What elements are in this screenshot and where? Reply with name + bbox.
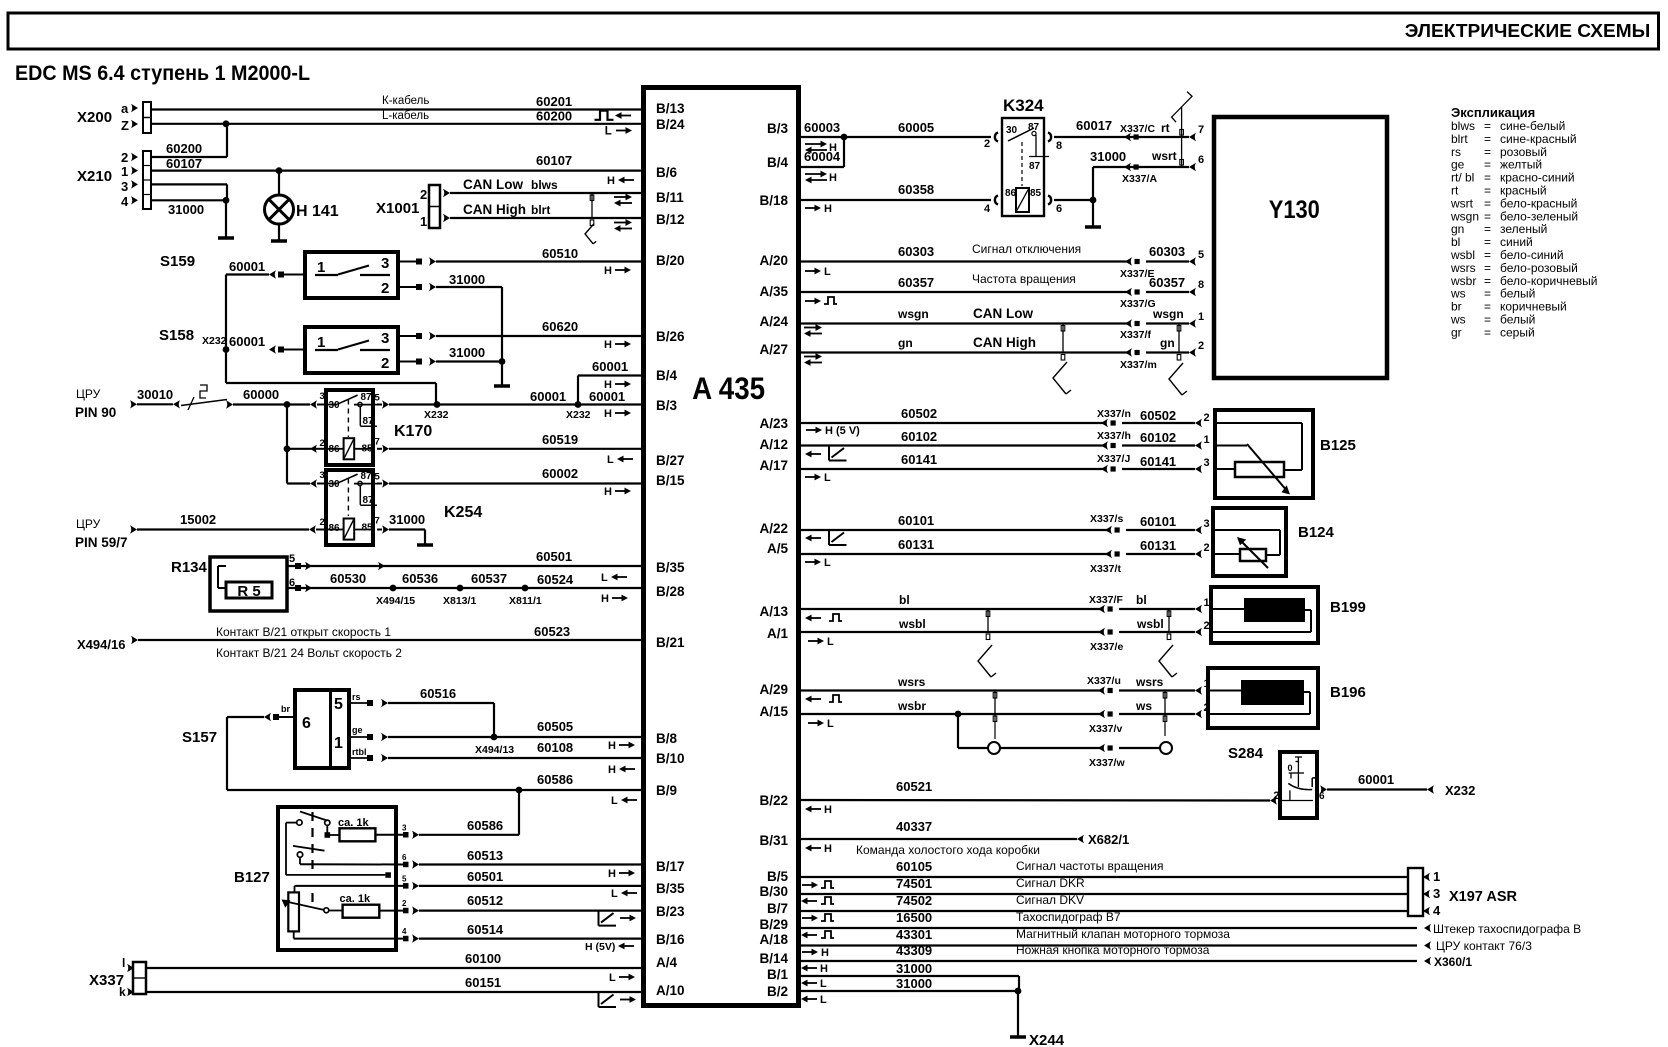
svg-text:5: 5 [334,696,343,713]
svg-text:2: 2 [381,280,389,297]
svg-text:1: 1 [420,214,427,229]
svg-text:wsbr: wsbr [897,699,926,713]
svg-text:43301: 43301 [896,927,932,942]
svg-text:60586: 60586 [537,772,573,787]
svg-text:wsrs: wsrs [897,675,926,689]
svg-text:ca. 1k: ca. 1k [340,893,371,905]
svg-text:60519: 60519 [542,432,578,447]
svg-text:wsrs: wsrs [1135,675,1164,689]
svg-text:2: 2 [984,138,990,150]
svg-text:H: H [607,175,615,187]
svg-text:3: 3 [381,255,389,272]
svg-text:B/16: B/16 [656,932,685,947]
svg-text:=: = [1484,274,1491,288]
svg-text:L: L [605,126,612,138]
svg-text:60005: 60005 [898,120,934,135]
svg-text:=: = [1484,261,1491,275]
svg-text:L: L [601,572,608,584]
svg-text:X337/F: X337/F [1089,594,1123,606]
svg-text:Команда холостого хода коробки: Команда холостого хода коробки [856,843,1040,857]
svg-text:60514: 60514 [467,922,504,937]
svg-text:5: 5 [402,874,407,883]
svg-text:H: H [608,740,616,752]
svg-text:бело-красный: бело-красный [1500,196,1577,210]
svg-text:H: H [824,804,832,816]
svg-text:ge: ge [1451,158,1465,172]
svg-text:A/10: A/10 [656,983,685,998]
svg-text:85: 85 [362,523,374,534]
svg-text:L-кабель: L-кабель [382,110,429,122]
svg-text:L: L [820,978,827,990]
svg-text:B/21: B/21 [656,635,685,650]
svg-text:X337/J: X337/J [1097,453,1130,465]
svg-text:2: 2 [320,438,325,449]
svg-text:60200: 60200 [166,141,202,156]
svg-text:2: 2 [1198,340,1204,352]
svg-text:B/8: B/8 [656,731,678,746]
svg-text:wsrs: wsrs [1450,261,1476,275]
svg-text:30010: 30010 [137,387,173,402]
svg-text:A/22: A/22 [759,521,788,536]
svg-text:B/26: B/26 [656,329,685,344]
svg-text:wsbl: wsbl [1136,617,1164,631]
svg-text:87: 87 [363,416,375,427]
svg-text:H: H [820,963,828,975]
svg-text:X1001: X1001 [376,200,419,217]
svg-text:=: = [1484,248,1491,262]
svg-text:3: 3 [381,330,389,347]
svg-text:60502: 60502 [1140,408,1176,423]
svg-text:=: = [1484,145,1491,159]
svg-text:wsgn: wsgn [1450,209,1479,223]
svg-text:30: 30 [329,479,341,490]
svg-text:6: 6 [1056,203,1062,215]
svg-text:2: 2 [320,517,325,528]
svg-text:=: = [1484,313,1491,327]
svg-text:43309: 43309 [896,943,932,958]
svg-text:gn: gn [1160,336,1175,350]
svg-text:Штекер тахоспидографа В: Штекер тахоспидографа В [1433,922,1581,936]
svg-text:H: H [608,764,616,776]
svg-text:5: 5 [375,472,381,483]
svg-text:H: H [824,203,832,215]
svg-text:X494/13: X494/13 [475,744,514,756]
svg-text:1: 1 [317,259,325,276]
svg-text:H (5V): H (5V) [585,941,615,953]
svg-text:br: br [1451,300,1462,314]
svg-text:wsrt: wsrt [1151,149,1177,163]
svg-text:B/31: B/31 [759,833,788,848]
svg-text:K324: K324 [1003,96,1044,115]
svg-text:X813/1: X813/1 [443,595,476,607]
svg-text:l: l [122,956,125,970]
svg-text:rs: rs [352,692,361,702]
svg-text:1: 1 [334,735,343,752]
svg-text:B/17: B/17 [656,859,685,874]
svg-text:60131: 60131 [1140,538,1176,553]
svg-text:=: = [1484,132,1491,146]
svg-text:60100: 60100 [465,951,501,966]
svg-text:60102: 60102 [901,429,937,444]
svg-text:L: L [827,718,834,730]
svg-text:=: = [1484,325,1491,339]
svg-text:60523: 60523 [534,624,570,639]
svg-text:H 141: H 141 [296,203,339,220]
svg-text:X337/h: X337/h [1097,430,1131,442]
svg-text:Ножная кнопка моторного тормоз: Ножная кнопка моторного тормоза [1016,943,1210,957]
svg-text:60105: 60105 [896,859,932,874]
svg-text:A/20: A/20 [759,253,788,268]
svg-text:2: 2 [1204,542,1210,554]
svg-text:A/29: A/29 [759,682,788,697]
svg-text:1: 1 [121,164,128,179]
svg-text:Экспликация: Экспликация [1451,105,1535,120]
svg-text:wsbr: wsbr [1450,274,1476,288]
svg-text:4: 4 [984,203,991,215]
svg-text:blws: blws [531,178,558,192]
svg-text:X337/t: X337/t [1090,563,1121,575]
svg-text:85: 85 [1030,188,1042,199]
svg-text:60521: 60521 [896,779,932,794]
svg-text:S158: S158 [159,327,194,344]
svg-text:60108: 60108 [537,740,573,755]
svg-text:красно-синий: красно-синий [1500,171,1575,185]
svg-text:gr: gr [1451,325,1462,339]
svg-text:60001: 60001 [592,359,628,374]
svg-text:87: 87 [361,392,373,403]
svg-text:H: H [829,172,837,184]
svg-text:=: = [1484,235,1491,249]
svg-text:X360/1: X360/1 [1434,955,1472,969]
svg-text:B/10: B/10 [656,751,685,766]
svg-text:30: 30 [1006,125,1018,136]
svg-text:87: 87 [361,471,373,482]
svg-text:L: L [607,454,614,466]
svg-text:H: H [604,339,612,351]
svg-text:B/4: B/4 [767,155,789,170]
svg-text:6: 6 [1319,791,1325,802]
svg-text:31000: 31000 [168,202,204,217]
svg-text:60001: 60001 [1358,772,1394,787]
svg-text:3: 3 [1204,457,1210,469]
svg-text:=: = [1484,196,1491,210]
svg-text:L: L [611,795,618,807]
svg-text:B/3: B/3 [656,398,678,413]
svg-text:S159: S159 [160,253,195,270]
svg-text:60512: 60512 [467,893,503,908]
svg-text:4: 4 [121,194,129,209]
svg-text:60516: 60516 [420,686,456,701]
svg-text:3: 3 [1204,518,1210,530]
svg-text:60001: 60001 [229,334,265,349]
svg-text:60303: 60303 [1149,244,1185,259]
svg-text:B/13: B/13 [656,101,685,116]
svg-text:A/23: A/23 [759,416,788,431]
svg-text:7: 7 [375,516,380,527]
svg-text:A/17: A/17 [759,458,788,473]
svg-text:H: H [821,947,829,959]
svg-text:60017: 60017 [1076,118,1112,133]
svg-text:X811/1: X811/1 [509,595,542,607]
svg-text:H (5 V): H (5 V) [825,425,860,437]
svg-text:31000: 31000 [896,961,932,976]
svg-text:L: L [820,994,827,1006]
svg-text:1: 1 [1198,311,1204,323]
svg-text:60141: 60141 [1140,454,1176,469]
svg-text:B/15: B/15 [656,473,685,488]
svg-text:5: 5 [289,553,295,565]
svg-text:Сигнал DKR: Сигнал DKR [1016,876,1085,890]
svg-text:2: 2 [402,899,407,908]
svg-text:ЦРУ: ЦРУ [76,387,101,401]
svg-text:74502: 74502 [896,893,932,908]
svg-text:1: 1 [1204,597,1210,609]
svg-text:B/35: B/35 [656,560,685,575]
svg-text:3: 3 [121,179,128,194]
svg-text:X337/f: X337/f [1120,329,1151,341]
svg-text:зеленый: зеленый [1500,222,1547,236]
svg-text:B125: B125 [1320,437,1356,454]
svg-text:L: L [611,888,618,900]
svg-text:B/6: B/6 [656,165,678,180]
svg-text:бело-розовый: бело-розовый [1500,261,1578,275]
svg-text:бело-синий: бело-синий [1500,248,1564,262]
svg-text:K170: K170 [394,423,432,440]
svg-text:0: 0 [1288,763,1293,773]
svg-text:CAN High: CAN High [463,202,526,217]
svg-text:74501: 74501 [896,876,932,891]
svg-text:X232: X232 [202,335,227,347]
svg-text:B/9: B/9 [656,783,677,798]
svg-text:60001: 60001 [530,389,566,404]
svg-text:H: H [824,843,832,855]
svg-text:4: 4 [402,927,407,936]
svg-text:X244: X244 [1029,1032,1065,1047]
svg-text:br: br [281,704,290,714]
svg-text:сине-белый: сине-белый [1500,119,1565,133]
svg-text:60002: 60002 [542,466,578,481]
svg-text:B/1: B/1 [767,967,789,982]
svg-text:H: H [604,486,612,498]
svg-text:a: a [121,101,129,116]
svg-text:wsgn: wsgn [897,307,929,321]
svg-text:rs: rs [1451,145,1461,159]
svg-text:5: 5 [375,393,381,404]
svg-text:wsbl: wsbl [1450,248,1475,262]
svg-text:bl: bl [899,593,910,607]
svg-text:К-кабель: К-кабель [382,95,429,107]
svg-text:wsgn: wsgn [1152,307,1184,321]
svg-text:=: = [1484,158,1491,172]
svg-text:B/24: B/24 [656,117,685,132]
svg-text:60200: 60200 [536,109,572,124]
svg-text:60537: 60537 [471,571,507,586]
svg-text:бело-коричневый: бело-коричневый [1500,274,1598,288]
svg-text:Y130: Y130 [1269,197,1320,224]
svg-text:B/22: B/22 [759,793,788,808]
svg-text:60357: 60357 [898,275,934,290]
svg-text:CAN Low: CAN Low [463,177,523,192]
svg-text:X200: X200 [77,109,112,126]
svg-text:H: H [604,379,612,391]
svg-text:1: 1 [1204,434,1210,446]
svg-text:60513: 60513 [467,848,503,863]
svg-text:gn: gn [898,336,913,350]
svg-text:B196: B196 [1330,684,1366,701]
svg-text:S284: S284 [1228,745,1264,762]
svg-text:2: 2 [1204,412,1210,424]
svg-text:bl: bl [1451,235,1460,249]
svg-text:X337/C: X337/C [1120,123,1155,135]
svg-text:B/14: B/14 [759,951,788,966]
svg-text:X337/n: X337/n [1097,408,1131,420]
svg-text:PIN 59/7: PIN 59/7 [75,535,128,550]
svg-text:60101: 60101 [1140,514,1176,529]
svg-text:=: = [1484,119,1491,133]
svg-text:60201: 60201 [536,94,572,109]
svg-text:blrt: blrt [531,203,550,217]
svg-text:B/11: B/11 [656,190,684,205]
svg-text:6: 6 [402,853,407,862]
svg-text:B/27: B/27 [656,453,685,468]
svg-text:X494/16: X494/16 [77,637,125,652]
svg-text:коричневый: коричневый [1500,300,1567,314]
svg-text:6: 6 [1198,154,1204,166]
svg-text:Магнитный клапан моторного тор: Магнитный клапан моторного тормоза [1016,927,1230,941]
svg-text:86: 86 [1005,188,1017,199]
svg-text:X232: X232 [1445,783,1475,798]
svg-text:wsrt: wsrt [1450,196,1474,210]
svg-text:желтый: желтый [1500,158,1542,172]
svg-text:Контакт В/21 открыт скорость 1: Контакт В/21 открыт скорость 1 [216,625,391,639]
svg-text:60303: 60303 [898,244,934,259]
svg-text:2: 2 [1204,620,1210,632]
svg-text:B/7: B/7 [767,901,788,916]
svg-text:60102: 60102 [1140,430,1176,445]
svg-text:60524: 60524 [537,572,574,587]
svg-text:B124: B124 [1298,524,1335,541]
svg-text:X210: X210 [77,168,112,185]
svg-text:k: k [119,985,126,999]
svg-text:X494/15: X494/15 [376,595,415,607]
svg-text:1: 1 [317,334,325,351]
svg-text:ws: ws [1450,287,1466,301]
svg-text:A/13: A/13 [759,604,788,619]
svg-text:rt/ bl: rt/ bl [1451,171,1474,185]
svg-text:B/12: B/12 [656,212,685,227]
svg-text:60001: 60001 [229,259,265,274]
svg-text:60586: 60586 [467,818,503,833]
svg-text:B/29: B/29 [759,917,788,932]
svg-text:31000: 31000 [389,512,425,527]
svg-text:60001: 60001 [589,389,625,404]
svg-text:gn: gn [1451,222,1464,236]
svg-text:7: 7 [1198,124,1204,136]
svg-text:4: 4 [1433,903,1441,918]
svg-text:blrt: blrt [1451,132,1468,146]
svg-text:L: L [609,972,616,984]
svg-text:A/15: A/15 [759,704,788,719]
svg-text:S157: S157 [182,729,217,746]
svg-text:B/2: B/2 [767,984,788,999]
svg-text:60620: 60620 [542,319,578,334]
svg-text:87: 87 [363,495,375,506]
svg-text:CAN Low: CAN Low [973,306,1033,321]
svg-text:31000: 31000 [896,976,932,991]
svg-text:87: 87 [1029,161,1041,172]
svg-text:B127: B127 [234,869,270,886]
svg-text:A/24: A/24 [759,314,788,329]
svg-text:60131: 60131 [898,537,934,552]
svg-text:сине-красный: сине-красный [1500,132,1577,146]
svg-text:60101: 60101 [898,513,934,528]
svg-text:60107: 60107 [536,153,572,168]
svg-text:60502: 60502 [901,406,937,421]
svg-text:15002: 15002 [180,512,216,527]
svg-text:A/4: A/4 [656,955,678,970]
svg-text:ws: ws [1450,313,1466,327]
svg-text:5: 5 [1198,249,1204,261]
svg-text:rt: rt [1451,184,1459,198]
svg-text:X337/s: X337/s [1090,513,1123,525]
svg-text:60003: 60003 [804,120,840,135]
svg-text:2: 2 [121,150,128,165]
svg-text:X337/m: X337/m [1120,359,1157,371]
svg-text:H: H [604,265,612,277]
svg-text:Сигнал частоты вращения: Сигнал частоты вращения [1016,859,1164,873]
svg-text:ws: ws [1135,699,1152,713]
svg-text:L: L [827,636,834,648]
svg-text:X337/w: X337/w [1089,757,1125,769]
svg-text:2: 2 [381,355,389,372]
svg-text:B/23: B/23 [656,904,685,919]
svg-text:60357: 60357 [1149,275,1185,290]
svg-text:wsbl: wsbl [898,617,926,631]
svg-text:60505: 60505 [537,719,573,734]
svg-text:бело-зеленый: бело-зеленый [1500,209,1578,223]
svg-text:31000: 31000 [1090,149,1126,164]
svg-text:X337/u: X337/u [1087,675,1121,687]
svg-text:=: = [1484,171,1491,185]
svg-text:серый: серый [1500,325,1535,339]
svg-text:Частота вращения: Частота вращения [972,272,1076,286]
svg-text:L: L [824,266,831,278]
svg-text:rt: rt [1161,121,1170,135]
svg-text:31000: 31000 [449,345,485,360]
svg-text:60501: 60501 [536,549,572,564]
svg-text:A/5: A/5 [767,541,789,556]
svg-text:A/27: A/27 [759,342,788,357]
svg-text:белый: белый [1500,313,1535,327]
svg-text:60141: 60141 [901,452,937,467]
svg-text:60510: 60510 [542,246,578,261]
svg-text:B/35: B/35 [656,881,685,896]
svg-text:B/30: B/30 [759,884,788,899]
svg-text:X232: X232 [566,409,591,421]
svg-text:B/5: B/5 [767,869,789,884]
svg-text:=: = [1484,184,1491,198]
svg-text:PIN 90: PIN 90 [75,405,116,420]
svg-text:Сигнал отключения: Сигнал отключения [972,242,1081,256]
svg-text:60536: 60536 [402,571,438,586]
svg-text:ЦРУ контакт 76/3: ЦРУ контакт 76/3 [1436,939,1532,953]
svg-text:6: 6 [302,715,311,732]
svg-text:Контакт В/21 24 Вольт скорость: Контакт В/21 24 Вольт скорость 2 [216,646,402,660]
svg-text:3: 3 [402,823,407,832]
svg-text:blws: blws [1451,119,1475,133]
svg-text:L: L [824,557,831,569]
svg-text:ge: ge [352,725,363,735]
